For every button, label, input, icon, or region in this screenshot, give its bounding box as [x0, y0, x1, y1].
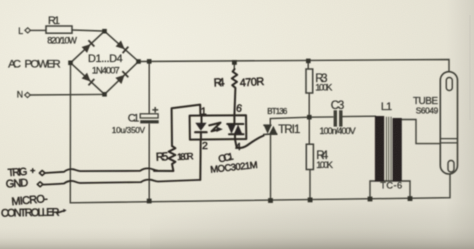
svg-text:TRI1: TRI1 — [278, 124, 300, 136]
svg-text:1: 1 — [201, 106, 207, 118]
svg-text:CONTROLLER: CONTROLLER — [1, 207, 60, 220]
svg-text:N: N — [17, 90, 23, 100]
svg-text:AC: AC — [8, 59, 21, 71]
svg-text:BT136: BT136 — [267, 107, 288, 116]
svg-text:180R: 180R — [177, 151, 194, 162]
svg-text:C1: C1 — [128, 113, 140, 125]
svg-text:L1: L1 — [381, 101, 392, 113]
svg-text:GND: GND — [5, 177, 28, 191]
svg-text:L: L — [18, 26, 23, 36]
svg-text:C3: C3 — [331, 100, 345, 112]
svg-text:S6049: S6049 — [416, 106, 439, 116]
svg-text:R5: R5 — [156, 151, 169, 164]
svg-text:100K: 100K — [316, 160, 334, 170]
svg-text:820/10W: 820/10W — [47, 36, 77, 46]
svg-text:10u/350V: 10u/350V — [112, 125, 146, 135]
svg-text:2: 2 — [202, 140, 208, 152]
svg-text:TC-6: TC-6 — [380, 181, 402, 191]
svg-text:100K: 100K — [315, 83, 333, 93]
svg-text:4: 4 — [235, 141, 241, 153]
svg-text:100n/400V: 100n/400V — [320, 126, 356, 136]
svg-text:R4: R4 — [213, 77, 225, 90]
svg-text:1N4007: 1N4007 — [92, 66, 120, 77]
svg-text:D1...D4: D1...D4 — [88, 53, 123, 65]
svg-text:R1: R1 — [48, 15, 60, 27]
svg-text:POWER: POWER — [25, 59, 61, 71]
svg-text:470R: 470R — [239, 76, 264, 90]
